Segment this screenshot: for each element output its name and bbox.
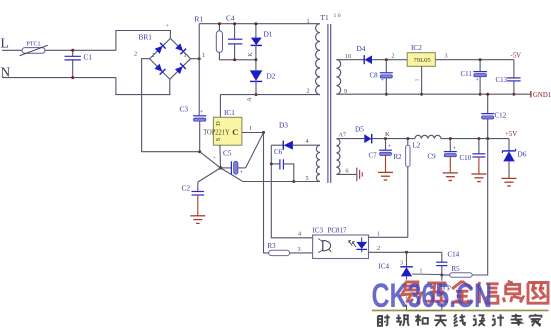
svg-text:PTC1: PTC1	[27, 42, 41, 48]
svg-text:L2: L2	[413, 141, 421, 149]
svg-text:C: C	[232, 127, 238, 137]
svg-text:79L05: 79L05	[414, 57, 432, 64]
svg-text:3: 3	[298, 246, 301, 253]
svg-text:2: 2	[377, 245, 380, 252]
svg-text:+: +	[200, 110, 204, 116]
svg-text:-5V: -5V	[511, 53, 522, 60]
svg-text:2: 2	[152, 52, 155, 59]
svg-text:C4: C4	[226, 14, 235, 23]
svg-text:R5: R5	[452, 265, 461, 273]
svg-text:+: +	[166, 23, 169, 29]
svg-text:K: K	[385, 131, 390, 138]
svg-text:L: L	[1, 36, 9, 51]
svg-text:C11: C11	[461, 70, 473, 78]
svg-text:GND1: GND1	[533, 92, 551, 99]
svg-text:6: 6	[346, 168, 349, 175]
svg-text:C7: C7	[369, 152, 378, 160]
svg-text:1: 1	[202, 52, 205, 59]
svg-text:C12: C12	[495, 112, 507, 120]
svg-text:D5: D5	[355, 124, 364, 133]
svg-text:1: 1	[414, 78, 420, 81]
svg-text:TOP221Y: TOP221Y	[203, 128, 230, 136]
svg-text:C1: C1	[84, 52, 93, 61]
svg-text:S: S	[215, 137, 222, 141]
svg-text:D: D	[215, 121, 222, 126]
svg-text:IC3: IC3	[313, 227, 324, 235]
svg-text:1: 1	[420, 269, 423, 275]
svg-text:2: 2	[134, 51, 137, 58]
svg-text:D3: D3	[279, 121, 288, 130]
svg-text:2: 2	[392, 52, 395, 59]
svg-text:3: 3	[445, 52, 448, 59]
svg-text:C10: C10	[460, 154, 472, 162]
svg-text:A: A	[246, 97, 253, 102]
svg-text:1: 1	[249, 125, 252, 132]
svg-text:R3: R3	[268, 242, 277, 250]
svg-text:R2: R2	[394, 153, 403, 161]
svg-text:+: +	[240, 170, 244, 176]
svg-text:1: 1	[184, 52, 187, 59]
svg-text:PC817: PC817	[328, 227, 348, 235]
svg-text:3: 3	[400, 261, 403, 267]
svg-text:C13: C13	[496, 76, 508, 84]
svg-text:C14: C14	[448, 251, 460, 259]
svg-text:C2: C2	[182, 184, 191, 193]
svg-text:C9: C9	[428, 153, 437, 161]
svg-text:+: +	[388, 144, 392, 150]
svg-text:1: 1	[377, 231, 380, 238]
svg-text:D1: D1	[264, 30, 273, 39]
svg-text:+: +	[213, 157, 216, 162]
svg-text:K: K	[247, 52, 254, 57]
svg-text:2: 2	[307, 88, 310, 95]
svg-text:10: 10	[345, 53, 351, 60]
svg-text:IC4: IC4	[379, 262, 390, 270]
svg-text:C5: C5	[223, 149, 232, 158]
svg-text:CK365.CN: CK365.CN	[372, 277, 493, 315]
svg-text:T1: T1	[321, 13, 329, 22]
svg-text:5: 5	[306, 175, 309, 182]
svg-text:BR1: BR1	[139, 33, 153, 42]
svg-text:1: 1	[307, 18, 310, 25]
svg-text:1 0: 1 0	[334, 13, 341, 19]
svg-text:C6: C6	[274, 148, 283, 156]
svg-text:A7: A7	[339, 132, 347, 139]
svg-text:D4: D4	[357, 44, 366, 53]
svg-text:D2: D2	[267, 72, 276, 81]
svg-text:D6: D6	[518, 150, 527, 159]
svg-text:+: +	[381, 78, 385, 84]
svg-text:C8: C8	[370, 71, 379, 79]
svg-text:IC1: IC1	[224, 108, 235, 117]
svg-text:R1: R1	[195, 15, 204, 24]
svg-text:4: 4	[306, 138, 309, 145]
svg-text:+5V: +5V	[505, 131, 517, 138]
svg-text:4: 4	[298, 231, 301, 238]
svg-text:IC2: IC2	[411, 43, 422, 52]
svg-text:C3: C3	[180, 105, 189, 114]
